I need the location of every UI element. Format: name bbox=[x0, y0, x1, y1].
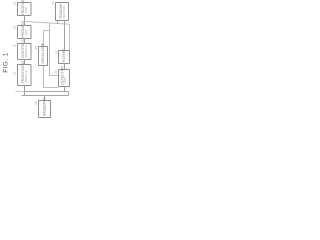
wire branch to right (node) bbox=[25, 22, 70, 25]
wire box2-box3 bbox=[24, 39, 26, 44]
svg-text:22: 22 bbox=[13, 72, 17, 76]
box 3 bbox=[18, 44, 32, 60]
svg-text:FILTERS: FILTERS bbox=[62, 48, 66, 62]
wire box B down to bus bbox=[64, 87, 66, 92]
wire box3-box4 bbox=[24, 60, 26, 65]
wire drop to box D bbox=[44, 96, 46, 101]
box B (right column tall) bbox=[59, 70, 70, 87]
wire box M bottom bbox=[44, 66, 59, 88]
svg-text:UNIT: UNIT bbox=[24, 29, 28, 36]
svg-text:FIG. 1: FIG. 1 bbox=[3, 52, 10, 72]
svg-text:26: 26 bbox=[54, 70, 58, 74]
box T (top right tall) bbox=[56, 3, 69, 21]
svg-text:16: 16 bbox=[13, 1, 17, 5]
svg-text:18: 18 bbox=[13, 25, 17, 29]
wire bus line 1 left tail bbox=[16, 91, 25, 93]
wire stub below box T left bbox=[57, 21, 59, 24]
box M (middle) bbox=[39, 47, 48, 66]
svg-text:BASEBAND: BASEBAND bbox=[42, 97, 46, 116]
box 1 (top of left chain) bbox=[18, 3, 32, 16]
svg-text:MODULE: MODULE bbox=[24, 70, 28, 82]
box 2 bbox=[18, 26, 32, 39]
box A (right column) bbox=[59, 51, 70, 64]
wire box T down to box A bbox=[64, 21, 66, 51]
wire bus line 1 bbox=[25, 91, 69, 93]
wire box A - box B bbox=[64, 64, 66, 70]
wire branch to box M top bbox=[44, 31, 50, 47]
svg-text:24: 24 bbox=[55, 50, 59, 54]
svg-text:UNIT: UNIT bbox=[24, 6, 28, 13]
wire bus line 2 bbox=[22, 95, 69, 97]
svg-text:12: 12 bbox=[51, 1, 55, 5]
wire box1-box2 bbox=[24, 16, 26, 26]
svg-text:28: 28 bbox=[34, 101, 38, 105]
box 4 (tall) bbox=[18, 65, 32, 86]
svg-text:OSCILLATOR: OSCILLATOR bbox=[41, 42, 45, 64]
wire bus right jog bbox=[68, 92, 70, 96]
wire box4 down to bus bbox=[24, 86, 26, 96]
svg-text:UNIT: UNIT bbox=[63, 77, 67, 84]
wire long vertical (return path) bbox=[50, 23, 59, 76]
box D (bottom) bbox=[39, 101, 51, 118]
svg-text:30: 30 bbox=[34, 46, 38, 50]
svg-text:20: 20 bbox=[13, 43, 17, 47]
wire down right edge to box A bbox=[69, 24, 71, 50]
svg-text:MODULE: MODULE bbox=[24, 45, 28, 57]
svg-text:SECTION: SECTION bbox=[62, 6, 66, 19]
